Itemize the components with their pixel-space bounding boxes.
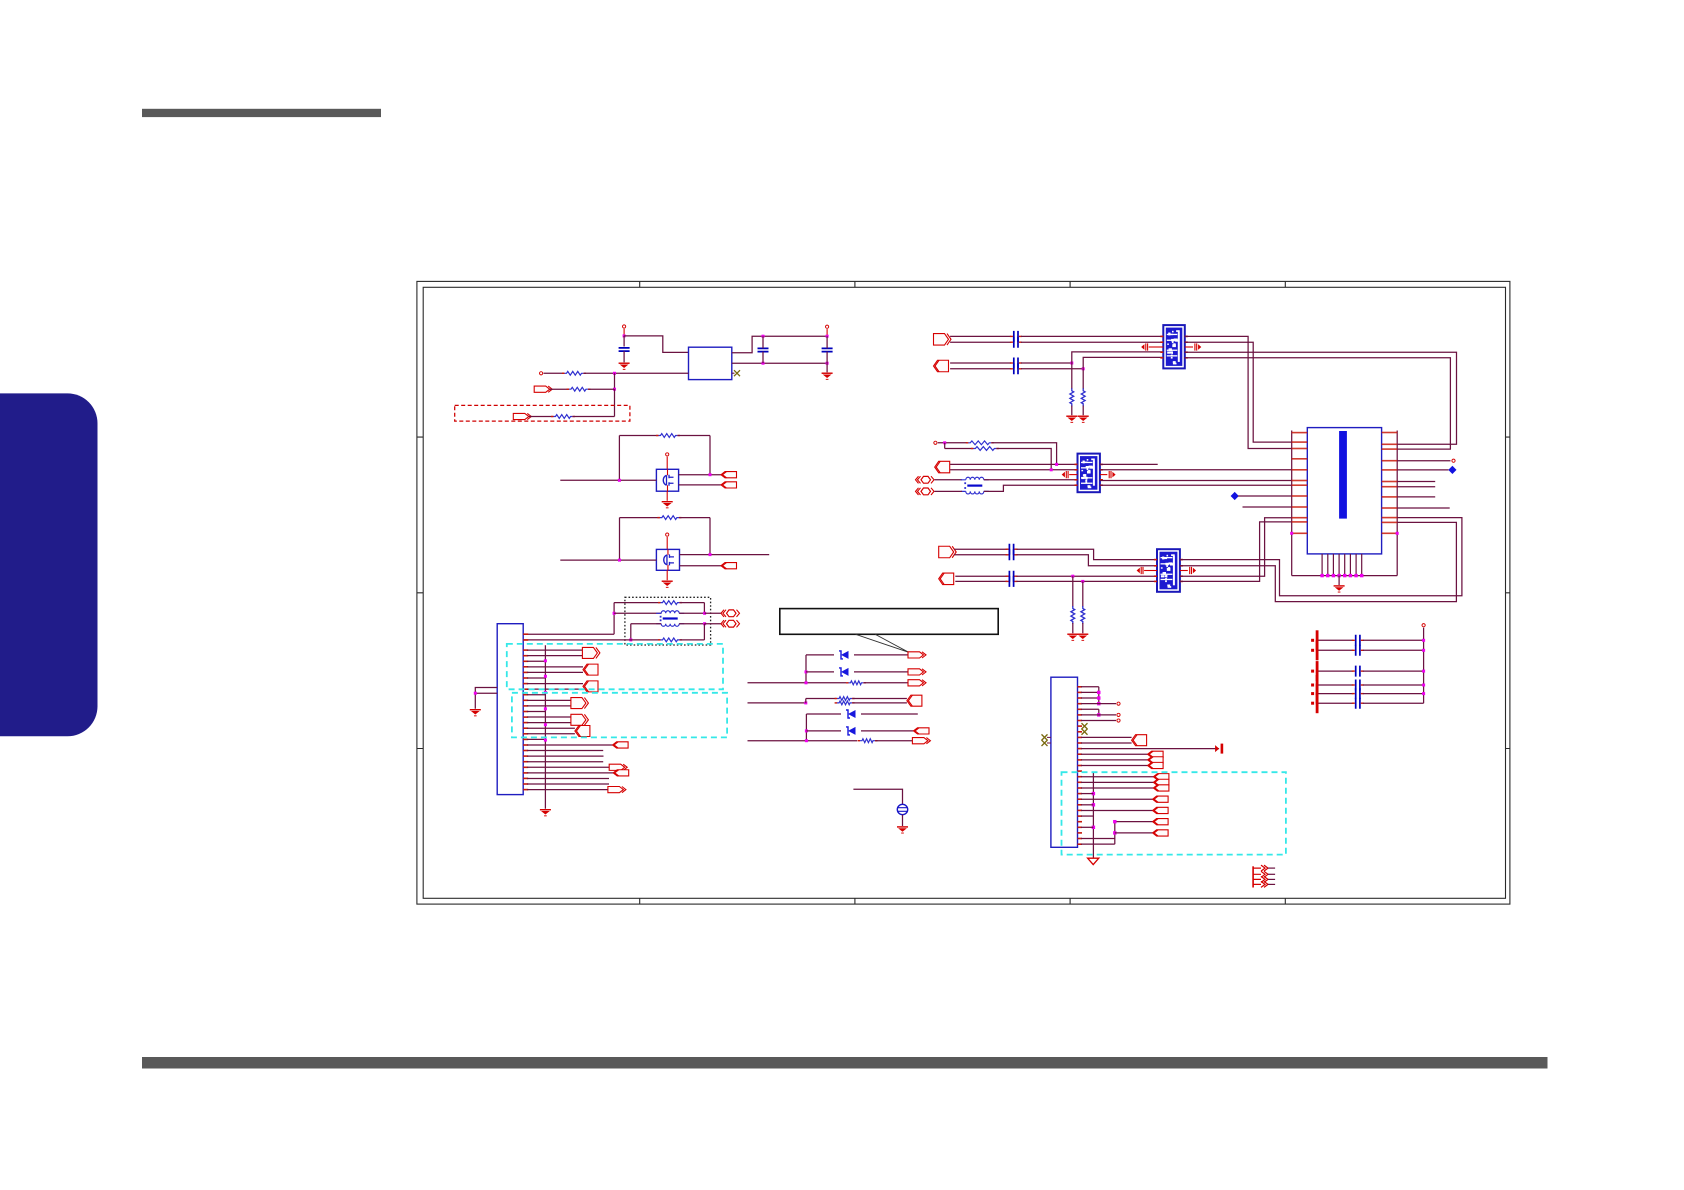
pin circle xyxy=(1452,459,1455,462)
wire xyxy=(1083,357,1163,368)
wire xyxy=(1081,804,1093,806)
junction xyxy=(1092,826,1095,829)
junction xyxy=(474,692,477,695)
junction xyxy=(804,701,807,704)
termination xyxy=(1215,744,1223,754)
wire xyxy=(1082,369,1084,389)
wire xyxy=(935,490,963,492)
bypass tap bar xyxy=(1311,693,1318,713)
wire xyxy=(954,554,1007,556)
wire xyxy=(1021,368,1083,370)
resistor xyxy=(1081,606,1085,624)
wire xyxy=(527,683,583,685)
connector CN1 bottom pins xyxy=(1322,554,1362,576)
wire xyxy=(1363,684,1424,686)
wire xyxy=(955,575,1007,577)
header bar xyxy=(142,109,381,117)
cyan dashed group box B xyxy=(512,693,727,738)
pin circle xyxy=(934,441,937,444)
wire xyxy=(475,692,497,694)
wire xyxy=(853,702,907,704)
power pin VOUT xyxy=(826,325,829,328)
wire xyxy=(619,435,658,437)
transistor Q1 xyxy=(656,469,678,491)
red dashed group box xyxy=(455,405,630,421)
wire xyxy=(1081,843,1115,845)
EMI filter FL2 xyxy=(1075,454,1103,493)
diode D4 xyxy=(846,727,856,735)
capacitor xyxy=(1006,576,1018,587)
junction xyxy=(709,553,712,556)
wire xyxy=(950,368,1011,370)
wire xyxy=(630,624,632,640)
capacitor xyxy=(1006,571,1018,582)
wire xyxy=(1185,336,1292,448)
ground xyxy=(1067,634,1078,641)
wire xyxy=(529,416,553,418)
wire xyxy=(527,705,571,707)
sheet outer border xyxy=(417,281,1510,904)
ground xyxy=(822,373,833,380)
junction xyxy=(618,479,621,482)
junction xyxy=(1396,532,1399,535)
wire xyxy=(1081,776,1153,778)
wire xyxy=(1319,649,1353,651)
ground xyxy=(662,501,673,508)
junction xyxy=(703,622,706,625)
port arrow xyxy=(1153,779,1169,785)
termination xyxy=(1137,567,1143,574)
port arrow 2-bit xyxy=(571,698,589,709)
port arrow 2-bit xyxy=(939,546,957,558)
wire xyxy=(1081,838,1115,840)
wire xyxy=(623,336,625,347)
wire xyxy=(527,710,545,712)
wire xyxy=(1319,702,1353,704)
wire xyxy=(1363,639,1424,641)
wire xyxy=(1017,580,1158,582)
power pin xyxy=(1422,624,1425,627)
wire xyxy=(1098,709,1100,715)
wire xyxy=(1363,702,1424,704)
wire xyxy=(679,612,704,614)
termination xyxy=(1195,343,1201,350)
port arrow 2-bit xyxy=(583,681,598,692)
wire xyxy=(679,474,721,476)
fuse F1 xyxy=(897,804,907,814)
wire xyxy=(527,777,609,779)
junction xyxy=(1070,362,1073,365)
capacitor xyxy=(1006,544,1018,555)
wire xyxy=(826,363,828,372)
wire xyxy=(679,517,710,519)
pin circle xyxy=(1117,713,1120,716)
wire xyxy=(1243,506,1292,508)
wire xyxy=(1238,495,1292,497)
wire xyxy=(1082,623,1084,633)
resistor xyxy=(1071,606,1075,624)
wire xyxy=(1115,821,1153,823)
junction xyxy=(1422,692,1425,695)
connector CN1 left pin stubs xyxy=(1292,432,1308,534)
wire xyxy=(527,655,582,657)
port arrow xyxy=(1148,751,1164,757)
wire xyxy=(1397,460,1450,462)
wire xyxy=(614,389,616,416)
wire xyxy=(984,479,1078,481)
port arrow xyxy=(1153,807,1169,813)
wire xyxy=(709,518,711,555)
note box xyxy=(780,609,998,635)
bottom pin junctions xyxy=(1320,574,1323,577)
wire xyxy=(523,639,660,641)
wire xyxy=(678,435,710,437)
wire xyxy=(1319,670,1353,672)
wire xyxy=(1081,759,1148,761)
resistor R7 xyxy=(658,638,682,642)
capacitor xyxy=(1010,363,1022,374)
wire xyxy=(1072,576,1074,607)
port arrow xyxy=(1148,757,1164,763)
wire xyxy=(666,537,668,549)
wire xyxy=(527,722,571,724)
wire xyxy=(1081,809,1153,811)
wire xyxy=(1081,826,1093,828)
wire xyxy=(1081,793,1093,795)
wire xyxy=(1081,697,1099,699)
resistor R1 xyxy=(562,371,586,375)
port arrow xyxy=(1153,796,1169,802)
regulator U1 xyxy=(689,347,732,379)
wire xyxy=(1081,714,1116,716)
wire xyxy=(1185,346,1193,348)
port arrow 2-bit xyxy=(934,360,949,372)
wire xyxy=(550,388,569,390)
junction xyxy=(1055,463,1058,466)
junction xyxy=(1081,580,1084,583)
wire xyxy=(705,612,721,614)
wire xyxy=(762,336,764,348)
wire xyxy=(944,443,946,449)
capacitor xyxy=(1352,645,1364,656)
wire xyxy=(527,738,545,740)
bypass tap bar xyxy=(1311,661,1318,681)
junction xyxy=(709,473,712,476)
capacitor xyxy=(1352,698,1364,709)
wire xyxy=(1081,815,1093,817)
resistor xyxy=(1081,388,1085,406)
wire xyxy=(1185,342,1292,442)
wire xyxy=(805,699,807,703)
wire xyxy=(854,671,908,673)
wire xyxy=(620,517,660,519)
port arrow xyxy=(1153,774,1169,780)
left navy tab xyxy=(0,393,98,736)
wire xyxy=(475,688,497,709)
wire xyxy=(527,649,582,651)
wire xyxy=(1100,463,1158,465)
choke T2 xyxy=(961,477,989,494)
choke T1 xyxy=(656,611,684,627)
junction xyxy=(613,612,616,615)
wire xyxy=(1072,352,1164,363)
open triangle ground xyxy=(1088,858,1099,864)
wire xyxy=(613,603,615,635)
wire xyxy=(618,436,620,481)
wire xyxy=(950,335,1011,337)
termination xyxy=(1141,343,1147,350)
wire xyxy=(992,443,1057,465)
capacitor xyxy=(1006,549,1018,560)
ground xyxy=(540,809,551,816)
capacitor xyxy=(1010,331,1022,342)
wire xyxy=(902,815,904,826)
wire xyxy=(984,485,1078,491)
capacitor xyxy=(1352,635,1364,646)
wire xyxy=(623,329,625,336)
diode D1 xyxy=(839,651,849,659)
port arrow xyxy=(534,386,552,392)
bypass tap bar xyxy=(1311,640,1318,660)
wire xyxy=(527,727,575,729)
pin circles xyxy=(916,476,935,483)
wire xyxy=(1081,753,1148,755)
resistor R10 xyxy=(858,739,878,743)
pin circle xyxy=(1117,702,1120,705)
wire xyxy=(527,783,609,785)
wire xyxy=(1397,481,1435,483)
capacitor xyxy=(1010,337,1022,348)
no-connect X xyxy=(1082,729,1088,735)
wire xyxy=(527,694,545,696)
junction xyxy=(826,335,829,338)
wire xyxy=(527,671,583,673)
junction xyxy=(1092,792,1095,795)
wire xyxy=(527,750,603,752)
wire xyxy=(623,351,625,362)
junction xyxy=(1097,713,1100,716)
wire xyxy=(709,436,711,475)
resistor R9a xyxy=(835,697,855,701)
port arrow 2-bit xyxy=(1132,735,1147,746)
wire xyxy=(527,716,571,718)
ground xyxy=(897,826,908,833)
resistor R8 xyxy=(846,681,866,685)
connector CN1 right pin stubs xyxy=(1382,432,1398,534)
port arrow xyxy=(1153,819,1169,825)
wire xyxy=(1021,335,1163,337)
capacitor xyxy=(1352,688,1364,699)
wire xyxy=(826,352,828,364)
junction xyxy=(1097,691,1100,694)
capacitor C-out1 xyxy=(758,348,769,351)
wire xyxy=(1017,575,1158,577)
capacitor C-in xyxy=(619,348,630,351)
wire xyxy=(680,554,770,556)
wire xyxy=(705,623,721,625)
wire xyxy=(1319,684,1353,686)
EMI filter FL3 xyxy=(1154,549,1183,592)
port arrow xyxy=(1148,762,1164,768)
wire xyxy=(1072,623,1074,633)
wire xyxy=(935,479,963,481)
wire xyxy=(1114,822,1116,844)
wire xyxy=(679,484,721,486)
no-connect X left xyxy=(1047,742,1051,744)
wire xyxy=(826,336,828,348)
ground xyxy=(1077,634,1088,641)
wire xyxy=(1180,518,1462,596)
connector CN1 xyxy=(1307,428,1381,554)
wire xyxy=(1363,649,1424,651)
resistor R12 xyxy=(971,447,999,451)
wire xyxy=(1082,406,1084,416)
port arrow xyxy=(908,652,926,658)
resistor R4 xyxy=(656,434,680,438)
wire xyxy=(945,448,973,450)
border zone ticks xyxy=(417,281,1510,904)
pin bus left xyxy=(1291,431,1293,576)
wire xyxy=(1100,480,1292,482)
port arrow xyxy=(721,472,737,478)
no-connect X left xyxy=(1047,736,1051,738)
wire xyxy=(1338,576,1340,585)
junction xyxy=(703,612,706,615)
wire xyxy=(631,623,661,625)
junction xyxy=(805,681,808,684)
wire xyxy=(527,761,603,763)
wire xyxy=(861,730,914,732)
wire xyxy=(762,352,764,364)
termination xyxy=(1109,471,1115,478)
wire xyxy=(1100,469,1292,471)
wire xyxy=(680,639,704,641)
junction xyxy=(1422,649,1425,652)
wire xyxy=(560,479,656,481)
wire xyxy=(1319,693,1353,695)
port arrow xyxy=(914,728,930,734)
junction xyxy=(805,670,808,673)
wire xyxy=(1081,742,1132,744)
wire xyxy=(1363,670,1424,672)
wire xyxy=(1081,748,1219,750)
port arrow xyxy=(608,787,626,793)
wire xyxy=(527,755,604,757)
junction xyxy=(1097,702,1100,705)
termination xyxy=(1062,471,1068,478)
wire xyxy=(950,469,1077,471)
resistor R2 xyxy=(567,387,591,391)
wire xyxy=(1081,708,1099,710)
wire xyxy=(1397,469,1448,471)
wire xyxy=(854,654,908,656)
wire xyxy=(666,457,668,470)
wire xyxy=(1071,363,1073,389)
ground xyxy=(1078,416,1089,423)
wire xyxy=(1021,362,1072,364)
wire xyxy=(950,362,1011,364)
connector J2 xyxy=(1051,677,1078,847)
wire xyxy=(1423,628,1425,704)
wire xyxy=(864,682,908,684)
wire xyxy=(876,740,913,742)
wire xyxy=(826,329,828,336)
cyan dashed group box A xyxy=(507,644,723,689)
wire xyxy=(950,463,1077,465)
junction xyxy=(826,362,829,365)
port arrow xyxy=(912,738,930,744)
pin circle xyxy=(540,372,543,375)
junction xyxy=(623,334,626,337)
diode D2 xyxy=(839,668,849,676)
capacitor xyxy=(1010,358,1022,369)
wire xyxy=(806,698,836,700)
wire xyxy=(1397,507,1450,509)
junction xyxy=(762,362,765,365)
wire xyxy=(748,740,858,742)
port arrow xyxy=(609,764,627,770)
port arrow xyxy=(908,669,926,675)
port arrow xyxy=(613,770,629,776)
junction xyxy=(1113,831,1116,834)
port arrow 4-bit bundle xyxy=(1253,865,1275,887)
wire xyxy=(573,416,615,418)
port arrow xyxy=(721,563,737,569)
wire xyxy=(853,698,907,700)
wire xyxy=(1081,703,1116,705)
no-connect X xyxy=(732,372,735,374)
sheet inner border xyxy=(423,287,1505,898)
wire xyxy=(805,714,807,741)
wire xyxy=(527,789,608,791)
wire xyxy=(527,733,575,735)
wire xyxy=(523,633,614,635)
wire xyxy=(806,730,841,732)
wire xyxy=(1081,720,1116,722)
port arrow xyxy=(613,742,629,748)
junctions on bus xyxy=(544,659,547,662)
junction xyxy=(618,559,621,562)
junction xyxy=(1422,639,1425,642)
wire xyxy=(1144,570,1157,572)
junction xyxy=(1050,468,1053,471)
wire xyxy=(666,491,668,501)
port arrow xyxy=(1153,785,1169,791)
wire xyxy=(527,699,571,701)
footer bar xyxy=(142,1057,1548,1069)
ground xyxy=(662,581,673,588)
wire xyxy=(1397,486,1435,488)
net stub diamond xyxy=(1448,466,1456,474)
wire xyxy=(527,688,583,690)
wire xyxy=(527,660,545,662)
wire xyxy=(806,671,834,673)
wire xyxy=(997,449,1051,470)
wire xyxy=(527,744,613,746)
junction xyxy=(1082,367,1085,370)
wire xyxy=(1081,736,1132,738)
wire xyxy=(853,789,902,804)
wire xyxy=(1319,639,1353,641)
wire xyxy=(1180,522,1292,582)
wire xyxy=(1185,358,1451,449)
wire xyxy=(1180,518,1292,577)
wire xyxy=(619,518,621,561)
wire xyxy=(732,336,827,353)
bottom pin bus xyxy=(1292,575,1398,577)
wire xyxy=(1100,474,1107,476)
resistor R9b xyxy=(835,701,855,705)
